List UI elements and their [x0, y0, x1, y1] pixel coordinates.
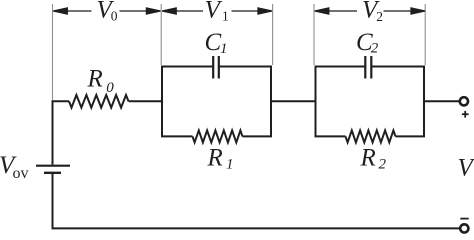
label V0 — [97, 0, 118, 24]
wire: block1 left edge and top-left branch — [162, 67, 213, 137]
dimension arrow V0 left — [53, 8, 425, 14]
negative terminal — [460, 224, 468, 232]
extension line at node A (x=52.5) — [52, 4, 54, 100]
svg-text:C: C — [205, 29, 222, 56]
wire: battery to bottom wire and bottom wire to negative terminal — [53, 174, 461, 229]
svg-text:2: 2 — [371, 41, 379, 57]
svg-text:0: 0 — [106, 80, 114, 96]
wire: block2 to positive terminal — [424, 100, 460, 102]
plus sign — [462, 111, 469, 118]
label R0 — [87, 66, 115, 96]
wire: block2 right edge and top-right branch — [371, 67, 424, 137]
svg-text:V: V — [205, 0, 223, 23]
svg-text:2: 2 — [376, 9, 383, 24]
dimension arrow V1 right — [232, 10, 272, 12]
svg-text:0: 0 — [111, 9, 118, 24]
svg-text:2: 2 — [379, 157, 387, 173]
resistor R1 — [193, 130, 243, 142]
svg-text:1: 1 — [222, 8, 229, 23]
svg-text:R: R — [360, 145, 376, 172]
capacitor C2 — [365, 56, 371, 79]
svg-text:R: R — [87, 66, 103, 93]
label C1 — [205, 29, 228, 57]
label R2 — [360, 145, 387, 173]
extension line at block2 right — [424, 4, 426, 65]
extension line at block1 right — [272, 4, 274, 65]
label V2 — [362, 0, 383, 24]
wire: block2 left edge and top-left branch — [316, 67, 366, 137]
wire: left branch down to battery — [52, 100, 54, 164]
dimension arrow V2 left — [315, 10, 357, 12]
wire: block1 right edge and top-right branch — [219, 67, 271, 137]
svg-text:V: V — [458, 155, 474, 182]
dimension arrow V0 right — [120, 10, 161, 12]
wire: main top wire from node A to R0 — [53, 100, 70, 102]
extension line at block2 left — [313, 4, 315, 65]
label Vov — [0, 152, 29, 182]
dimension arrow V2 right — [384, 10, 425, 12]
resistor R2 — [346, 130, 396, 142]
svg-text:R: R — [207, 145, 223, 172]
battery Vov bottom plate — [44, 172, 61, 174]
svg-text:1: 1 — [226, 157, 234, 173]
resistor R0 — [69, 95, 129, 108]
label R1 — [207, 145, 234, 173]
label C2 — [356, 29, 379, 57]
battery Vov top plate — [36, 165, 70, 167]
dimension arrow V1 left — [162, 10, 203, 12]
minus sign — [460, 218, 468, 220]
svg-text:ov: ov — [13, 165, 29, 182]
positive terminal — [460, 97, 468, 105]
label V1 — [205, 0, 229, 23]
capacitor C1 — [213, 56, 219, 79]
wire: R0 to block 1 — [129, 100, 163, 102]
wire: block1 to block2 — [271, 100, 316, 102]
svg-text:1: 1 — [220, 41, 228, 57]
extension line at block1 left — [160, 4, 162, 65]
